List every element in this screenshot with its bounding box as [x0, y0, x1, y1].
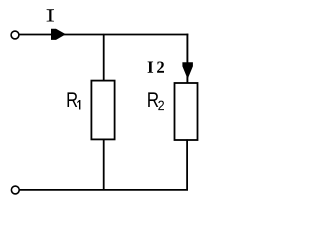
wire: R1 bottom to bottom rail: [103, 139, 105, 190]
label R1: [68, 92, 81, 109]
current arrow I (pointing right): [51, 29, 66, 40]
terminal T2 (bottom-left return): [11, 186, 19, 194]
wire: node A to top-right corner: [104, 34, 189, 36]
wire: node A down to resistor R1: [103, 35, 105, 81]
label I 2: [148, 61, 154, 72]
resistor R2: [175, 83, 198, 140]
label R2: [148, 92, 164, 110]
wire: bottom rail: [19, 189, 188, 191]
resistor R1: [91, 81, 114, 140]
wire: R2 bottom to bottom rail: [186, 139, 188, 190]
wire: top-right corner down to resistor R2: [186, 34, 188, 84]
wire: top-left terminal to node A: [19, 34, 104, 36]
terminal T1 (top-left input): [11, 31, 19, 39]
label I: [47, 9, 54, 21]
current arrow I2 (pointing down into R2): [182, 62, 193, 79]
